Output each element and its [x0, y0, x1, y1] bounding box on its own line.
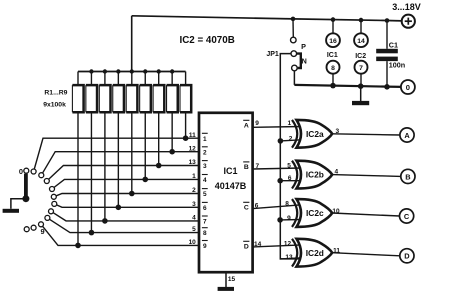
wire pin 8 to 0V rail: [332, 74, 334, 86]
wire 0V supply rail: [294, 85, 401, 87]
op IC1 40147B box: [199, 113, 253, 272]
svg-text:5: 5: [203, 191, 207, 198]
ground symbol at IC1 pin 15: [225, 272, 227, 287]
node dot R1 to row 9: [75, 243, 81, 249]
wire N contact to 0V rail: [293, 71, 295, 85]
svg-text:8: 8: [331, 65, 335, 72]
jumper JP1 contact P: [291, 37, 297, 43]
wire IC1 D output to gate: [253, 245, 302, 247]
xor gate IC2a: [280, 120, 339, 148]
svg-text:14: 14: [357, 38, 365, 45]
xor gate IC2b: [280, 161, 338, 189]
wire IC1 C output to gate: [253, 205, 302, 209]
switch open contact top: [24, 168, 29, 173]
wire resistor common rail: [78, 71, 186, 73]
pin circle 7 (IC2 ground): [355, 61, 368, 74]
jumper JP1 bracket (set to N): [297, 54, 301, 68]
wire JP1 net: center contact down to IC2d pin13: [280, 54, 301, 259]
resistor R4: [113, 72, 124, 208]
svg-text:1: 1: [192, 173, 196, 180]
wire vertical from resistor rail to top rail: [131, 16, 133, 72]
wire IC1 B output to gate: [253, 168, 302, 169]
svg-text:6: 6: [288, 175, 292, 182]
wire gate IC2a output to terminal A: [332, 134, 400, 135]
svg-text:B: B: [405, 172, 410, 181]
svg-text:IC2d: IC2d: [306, 248, 324, 258]
resistor R6: [140, 72, 151, 180]
svg-text:A: A: [244, 123, 249, 130]
wire gate IC2b output to terminal B: [332, 175, 401, 177]
wire pin 7 to 0V rail: [360, 74, 362, 87]
wire switch contact 3 to IC1 row 3: [47, 166, 199, 182]
svg-text:C: C: [404, 212, 410, 221]
svg-text:12: 12: [189, 145, 197, 152]
svg-text:IC2c: IC2c: [306, 208, 324, 218]
node dot R7 to row 3: [156, 163, 162, 169]
0V terminal: [401, 80, 415, 94]
terminal B: [401, 169, 415, 183]
svg-text:100n: 100n: [389, 61, 405, 70]
svg-text:7: 7: [359, 65, 363, 72]
node dot R8 to row 2: [169, 149, 175, 155]
svg-text:5: 5: [192, 226, 196, 233]
resistor R8: [167, 72, 178, 152]
node dot R6 to row 4: [142, 177, 148, 183]
svg-text:C: C: [244, 205, 249, 212]
svg-text:9: 9: [255, 120, 259, 127]
wire gate IC2c output to terminal C: [332, 213, 400, 216]
svg-text:8: 8: [203, 230, 207, 237]
node junction dots on top rail: [291, 17, 296, 22]
svg-text:2: 2: [203, 149, 207, 156]
svg-text:3...18V: 3...18V: [392, 2, 421, 12]
svg-text:9x100k: 9x100k: [43, 101, 66, 108]
wire from top rail to JP1 P contact: [292, 19, 294, 37]
svg-text:9: 9: [40, 227, 44, 236]
+V terminal 3...18V: [402, 15, 415, 28]
svg-text:D: D: [404, 252, 410, 261]
pin circle 16 (IC1 supply): [326, 33, 340, 47]
capacitor C1 100n: [386, 21, 388, 49]
svg-text:14: 14: [254, 241, 262, 248]
switch contact circle: [39, 222, 44, 227]
svg-text:7: 7: [203, 219, 207, 226]
wire IC1 A output to gate: [253, 126, 302, 129]
wire switch contact 2 to IC1 row 2: [41, 152, 199, 176]
svg-text:IC2 = 4070B: IC2 = 4070B: [180, 35, 235, 46]
node dots on JP1 net at gate 2nd inputs: [278, 138, 284, 144]
svg-text:1: 1: [203, 136, 207, 143]
svg-text:C1: C1: [389, 41, 398, 50]
svg-text:A: A: [404, 131, 410, 140]
wire top rail to IC1 pin 16: [332, 20, 334, 34]
svg-text:IC1: IC1: [223, 166, 237, 176]
svg-text:6: 6: [255, 202, 259, 209]
svg-text:10: 10: [189, 239, 197, 246]
pin circle 14 (IC2 supply): [354, 33, 368, 47]
svg-text:12: 12: [284, 240, 292, 247]
svg-text:P: P: [301, 42, 306, 51]
terminal C: [400, 209, 414, 223]
node dot R9 to row 1: [183, 135, 189, 141]
resistor R5: [126, 72, 137, 194]
svg-text:3: 3: [192, 201, 196, 208]
svg-text:B: B: [244, 164, 249, 171]
switch contact circle: [44, 179, 49, 184]
svg-text:D: D: [244, 244, 249, 251]
svg-text:R1...R9: R1...R9: [44, 90, 67, 97]
svg-text:40147B: 40147B: [215, 181, 247, 191]
pin circle 8 (IC1 ground): [327, 61, 340, 74]
wire switch contact 6 to IC1 row 6: [54, 204, 199, 207]
switch S1 wiper arm: [24, 174, 28, 199]
switch contact circle: [52, 201, 57, 206]
terminal A: [400, 128, 414, 142]
wire switch contact 7 to IC1 row 7: [51, 211, 199, 221]
resistor R7: [153, 72, 164, 166]
svg-text:6: 6: [203, 205, 207, 212]
ground symbol at 0V rail: [360, 86, 362, 101]
svg-text:0: 0: [406, 83, 410, 92]
switch contact circle: [39, 173, 44, 178]
ground symbol at switch: [3, 209, 19, 213]
svg-text:4: 4: [192, 215, 196, 222]
svg-text:IC2a: IC2a: [306, 129, 324, 139]
svg-text:1: 1: [287, 120, 291, 127]
node dots on 0V rail: [330, 83, 336, 89]
wire top supply rail: [132, 16, 402, 21]
jumper JP1 contact N: [292, 65, 298, 71]
wire gate IC2d output to terminal D: [332, 253, 400, 256]
wire top rail to IC2 pin 14: [360, 20, 362, 33]
resistor R3: [99, 72, 110, 221]
node dots on resistor rail: [89, 69, 93, 73]
svg-text:2: 2: [192, 187, 196, 194]
svg-text:IC2b: IC2b: [306, 170, 324, 180]
switch contact circle: [45, 215, 50, 220]
wire switch contact 9 to IC1 row 9: [41, 224, 199, 245]
resistor R9: [180, 72, 191, 139]
switch open contacts bottom: [31, 225, 36, 230]
svg-text:7: 7: [255, 163, 259, 170]
switch contact circle: [31, 169, 36, 174]
svg-text:4: 4: [203, 177, 207, 184]
node dot R2 to row 8: [89, 230, 95, 236]
svg-text:JP1: JP1: [266, 51, 279, 58]
svg-text:9: 9: [287, 215, 291, 222]
svg-text:0: 0: [19, 167, 23, 176]
switch contact circle: [51, 194, 56, 199]
svg-text:16: 16: [329, 38, 337, 45]
svg-text:N: N: [302, 56, 307, 65]
svg-text:13: 13: [285, 254, 293, 261]
node dot R3 to row 7: [102, 218, 108, 224]
wire switch contact 5 to IC1 row 5: [54, 194, 199, 197]
xor gate IC2c: [280, 199, 340, 227]
resistor R2: [86, 72, 97, 233]
svg-text:IC2: IC2: [355, 53, 366, 60]
xor gate IC2d: [280, 239, 340, 267]
node dot R5 to row 5: [129, 191, 135, 197]
svg-text:9: 9: [203, 243, 207, 250]
svg-text:15: 15: [228, 276, 236, 283]
svg-text:5: 5: [287, 162, 291, 169]
resistor R1: [72, 72, 83, 246]
svg-text:13: 13: [189, 159, 197, 166]
wire switch contact 1 to IC1 row 1: [34, 138, 199, 171]
node dot R4 to row 6: [116, 205, 122, 211]
svg-text:8: 8: [285, 200, 289, 207]
svg-text:IC1: IC1: [327, 52, 338, 59]
switch contact circle: [49, 209, 54, 214]
terminal D: [400, 249, 414, 263]
wire wiper to ground: [11, 199, 26, 209]
svg-text:2: 2: [289, 135, 293, 142]
svg-text:11: 11: [189, 132, 196, 139]
wire switch contact 4 to IC1 row 4: [52, 179, 199, 189]
switch contact circle: [50, 187, 55, 192]
wire switch contact 8 to IC1 row 8: [47, 218, 199, 233]
jumper JP1 center contact: [291, 51, 297, 57]
svg-text:3: 3: [203, 163, 207, 170]
